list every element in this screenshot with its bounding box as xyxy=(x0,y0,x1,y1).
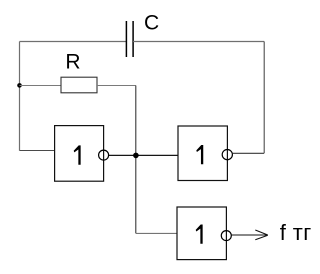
wire resistor left lead xyxy=(20,85,62,87)
wire middle vertical (R to node A and U3 input) xyxy=(135,86,137,234)
wire U3 input xyxy=(136,232,177,234)
inverter U3 body xyxy=(177,207,226,260)
wire top-right segment (capacitor to right vertical) xyxy=(133,41,264,43)
inverter U3 output bubble xyxy=(221,231,231,241)
wire left vertical (feedback to U1 input) xyxy=(19,42,21,151)
node A junction dot xyxy=(133,153,139,159)
svg-text:C: C xyxy=(144,12,159,35)
wire U2 output to right vertical xyxy=(233,152,265,154)
capacitor C1 plates xyxy=(126,21,133,57)
wire top-left segment (node output U2 to capacitor) xyxy=(20,41,127,43)
wire right vertical (to U2 output) xyxy=(263,42,265,154)
node junction on left vertical xyxy=(17,83,22,88)
svg-text:f тг: f тг xyxy=(280,220,312,245)
inverter U3 label 1 xyxy=(196,225,203,244)
inverter U2 label 1 xyxy=(196,145,203,164)
wire resistor right lead xyxy=(97,85,136,87)
svg-text:R: R xyxy=(65,51,80,74)
inverter U2 output bubble xyxy=(222,150,232,160)
inverter U2 body xyxy=(178,126,227,181)
wire U1 output to U2 input xyxy=(109,154,179,156)
inverter U1 body xyxy=(55,126,104,182)
inverter U1 label 1 xyxy=(74,145,81,164)
output arrow f tg xyxy=(232,230,268,240)
inverter U1 output bubble xyxy=(99,150,109,160)
wire U1 input xyxy=(20,150,55,152)
resistor R body xyxy=(61,77,97,93)
